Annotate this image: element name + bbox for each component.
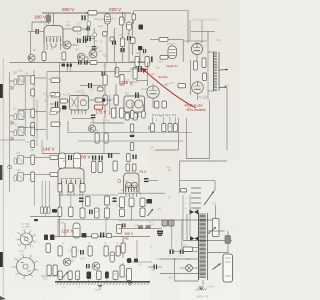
wire <box>93 85 104 87</box>
wire <box>171 220 173 250</box>
wire <box>35 173 50 175</box>
wire <box>114 28 116 63</box>
resistor small R37 <box>50 111 57 114</box>
capacitor C5b <box>82 36 85 41</box>
resistor R90 <box>41 207 44 214</box>
capacitor C81 <box>138 225 143 228</box>
wire <box>147 62 149 86</box>
electrolytic C102 <box>110 252 114 262</box>
wire <box>180 160 227 162</box>
resistor R21b <box>31 89 35 96</box>
switch contact 1 <box>191 187 201 189</box>
flyback T2 core <box>198 213 200 280</box>
wire <box>85 35 94 37</box>
capacitor C96 <box>134 259 138 263</box>
wire <box>0 139 25 141</box>
resistor R67 <box>125 113 129 120</box>
resistor R142 <box>53 265 57 276</box>
capacitor C72 <box>113 198 117 200</box>
wire <box>30 216 60 218</box>
resistor R34 <box>50 155 58 159</box>
resistor R64 <box>178 84 186 88</box>
IF can mark <box>19 158 23 163</box>
resistor R32 <box>51 93 60 98</box>
resistor R34 <box>51 122 60 127</box>
resistor R35 <box>50 172 58 176</box>
resistor R41c <box>115 68 119 78</box>
wire <box>79 185 81 196</box>
capacitor C90 <box>213 219 220 237</box>
diode D1 <box>11 86 14 90</box>
wire <box>188 247 199 249</box>
wire <box>136 240 138 258</box>
paper blotch 4 <box>175 210 245 290</box>
wire <box>73 185 75 196</box>
wire <box>24 156 31 158</box>
wire <box>168 39 183 41</box>
V9 pins <box>125 112 127 118</box>
wire <box>131 207 133 221</box>
wire <box>36 100 38 146</box>
resistor R71 <box>142 111 146 118</box>
svg-text:R41: R41 <box>98 87 103 89</box>
wire <box>132 13 134 55</box>
wire <box>109 95 111 114</box>
capacitor C92 <box>170 250 171 255</box>
tube socket S1 <box>20 233 32 245</box>
resistor R76 <box>132 164 136 171</box>
resistor R64b <box>160 56 168 60</box>
wire <box>130 61 153 63</box>
capacitor C101 <box>86 264 87 268</box>
wire <box>133 20 135 24</box>
wire <box>48 181 50 207</box>
IF can mark <box>19 129 23 134</box>
capacitor C9 <box>120 48 121 52</box>
resistor R11 <box>103 32 107 37</box>
switch contact 3 <box>191 197 201 199</box>
wire <box>152 98 154 108</box>
wire <box>174 251 199 253</box>
resistor R68 <box>133 113 137 120</box>
wire <box>207 31 209 40</box>
capacitor tip b <box>70 64 72 67</box>
resistor R17c <box>194 61 198 70</box>
paper background <box>0 0 240 300</box>
svg-text:R51: R51 <box>92 160 97 162</box>
resistor R48 <box>95 133 99 143</box>
capacitor C44 <box>99 156 100 161</box>
wire <box>197 93 199 100</box>
resistor R24 <box>31 155 35 165</box>
svg-text:C87: C87 <box>77 24 82 26</box>
svg-text:C12: C12 <box>75 276 80 278</box>
wire <box>105 218 107 237</box>
svg-text:220 V: 220 V <box>109 7 122 12</box>
left margin mark 1 <box>0 84 3 98</box>
resistor R138 <box>97 271 102 280</box>
resistor small <box>14 175 17 181</box>
svg-text:-75 V: -75 V <box>138 170 147 174</box>
wire <box>43 61 45 63</box>
capacitor C61 <box>133 155 134 160</box>
resistor small <box>14 130 17 136</box>
capacitor C2 <box>36 29 37 34</box>
wire <box>72 117 93 119</box>
resistor R22 <box>31 109 35 118</box>
wire <box>122 253 124 258</box>
transistor Q5 <box>63 258 71 266</box>
resistor R51 <box>92 162 96 173</box>
capacitor C93 <box>180 250 181 255</box>
svg-text:via Rxx: via Rxx <box>158 75 168 79</box>
wire ground bus <box>55 281 150 283</box>
svg-text:PL81: PL81 <box>142 88 148 91</box>
ground g2 <box>98 285 103 287</box>
resistor R63b <box>159 38 168 42</box>
switch contact 2 <box>191 192 201 194</box>
wire <box>59 192 61 207</box>
switch arm S11 <box>204 191 214 205</box>
svg-text:C12: C12 <box>25 142 30 144</box>
wire <box>103 118 105 154</box>
wire <box>35 129 46 131</box>
resistor R60 <box>135 57 139 67</box>
capacitor C8 <box>112 41 113 45</box>
wire <box>207 40 209 100</box>
paper blotch 3 <box>45 165 155 235</box>
resistor R117 <box>181 189 187 193</box>
resistor R113 <box>140 208 145 217</box>
wire <box>41 181 43 207</box>
paper mottling <box>0 0 240 300</box>
junction <box>106 13 108 15</box>
wire <box>40 31 45 33</box>
svg-text:C14: C14 <box>16 152 21 155</box>
resistor R141 <box>47 265 51 276</box>
fuse resistor on rail <box>88 11 97 15</box>
wire <box>31 22 33 32</box>
paper blotch 2 <box>110 15 210 65</box>
electrolytic capacitor C1 <box>46 15 51 23</box>
switch arm S12 <box>208 227 216 234</box>
resistor R105b <box>69 207 74 217</box>
wire <box>60 43 62 50</box>
wire <box>92 119 94 124</box>
wire <box>180 267 186 269</box>
wire <box>155 149 178 151</box>
left margin mark 2 <box>0 165 2 180</box>
wire <box>45 214 47 217</box>
wire <box>61 185 63 196</box>
transistor Q6 <box>92 262 100 270</box>
svg-text:C87: C87 <box>187 259 192 261</box>
capacitor C45 <box>108 153 109 158</box>
wire <box>181 220 183 250</box>
wire <box>71 44 78 46</box>
ground flyback <box>199 286 204 288</box>
ground hatch fb <box>196 289 197 291</box>
svg-text:1M5: 1M5 <box>69 261 74 263</box>
wire <box>104 105 106 118</box>
wire <box>130 68 138 70</box>
wire <box>115 63 117 75</box>
diode D2 pair <box>190 236 195 241</box>
wire <box>106 33 108 63</box>
paper band right <box>150 150 180 300</box>
resistor R48b <box>112 108 116 118</box>
wire stub <box>115 280 117 282</box>
wire <box>149 180 159 182</box>
capacitor C12 <box>88 83 89 88</box>
svg-text:ECC: ECC <box>125 94 130 96</box>
svg-text:C87: C87 <box>75 49 80 51</box>
wire <box>148 266 154 268</box>
wire <box>85 56 88 58</box>
left margin rule <box>2 58 4 296</box>
ground bus hatch <box>57 283 59 285</box>
wire <box>180 180 215 182</box>
V11 pins <box>125 193 127 197</box>
resistor small <box>14 79 17 85</box>
capacitor C5 <box>87 36 88 41</box>
resistor R75 <box>126 164 130 171</box>
wire <box>158 266 162 268</box>
svg-text:200 V: 200 V <box>62 7 75 12</box>
capacitor C14 <box>62 106 67 110</box>
capacitor C70 <box>52 209 57 213</box>
resistor R46 <box>95 98 102 102</box>
capacitor C16 <box>62 64 66 67</box>
wire <box>85 29 89 31</box>
wire <box>136 80 148 82</box>
resistor R108 <box>107 234 112 238</box>
resistor R66 <box>162 101 166 108</box>
wire <box>82 192 84 208</box>
wire HT line <box>226 88 228 150</box>
wire <box>192 267 198 269</box>
wire <box>35 111 46 113</box>
wire anode V1 <box>53 13 55 26</box>
capacitor dark <box>34 219 38 221</box>
wire stub <box>128 280 130 282</box>
electrolytic C73 <box>73 223 80 238</box>
resistor R80 <box>151 124 155 132</box>
svg-text:C87: C87 <box>94 212 99 214</box>
wire module left <box>46 72 48 140</box>
wire <box>143 68 148 70</box>
svg-text:24RT4 - B: 24RT4 - B <box>196 295 208 299</box>
wire 120V rail <box>55 236 150 238</box>
resistor R103 <box>86 197 91 207</box>
IF can T3 <box>18 127 24 136</box>
V6 pins <box>71 110 73 114</box>
wire <box>182 40 184 63</box>
wire <box>10 80 15 82</box>
wire <box>35 156 50 158</box>
resistor R92 <box>47 207 50 214</box>
resistor R41d <box>98 87 104 91</box>
capacitor C54b <box>139 25 144 30</box>
electrolytic C40 <box>59 153 66 169</box>
resistor R135 <box>58 271 62 280</box>
wire <box>87 57 89 63</box>
wire <box>61 44 63 46</box>
capacitor C7 <box>92 46 97 47</box>
svg-text:175 V: 175 V <box>96 109 107 114</box>
resistor R120 <box>183 247 193 251</box>
svg-text:C12: C12 <box>98 51 103 53</box>
svg-text:R34: R34 <box>115 72 120 74</box>
capacitor C100 <box>80 250 81 255</box>
svg-text:R216: R216 <box>59 223 65 225</box>
resistor R17 <box>202 58 206 68</box>
transistor Q3 <box>77 53 85 61</box>
wire <box>43 43 45 52</box>
svg-text:R216: R216 <box>133 82 139 84</box>
junction <box>137 61 139 63</box>
capacitor C56 <box>148 57 150 62</box>
capacitor C51 <box>127 36 128 40</box>
V11 circle <box>126 182 132 188</box>
wire <box>50 43 52 47</box>
wire <box>183 40 207 42</box>
svg-text:Raak 5n: Raak 5n <box>167 64 179 68</box>
capacitor C4 <box>83 39 84 43</box>
resistor R106 <box>80 208 85 218</box>
wire <box>115 84 117 95</box>
wire h-line A <box>120 132 192 134</box>
wire <box>185 118 187 159</box>
capacitor C71 <box>79 198 84 200</box>
wire <box>122 237 124 244</box>
switch S10 <box>148 209 154 216</box>
svg-text:C12: C12 <box>75 251 80 253</box>
resistor R70 <box>130 111 134 119</box>
IF can T1 <box>18 76 24 85</box>
svg-text:mass: mass <box>95 289 102 292</box>
wire <box>186 158 209 160</box>
svg-text:IC: IC <box>68 22 71 24</box>
svg-text:1M5: 1M5 <box>102 98 107 100</box>
arrow T1 tap <box>220 69 229 72</box>
wire <box>67 185 69 196</box>
resistor R109 <box>117 225 122 234</box>
wire <box>133 11 135 15</box>
wire <box>33 181 35 206</box>
wire <box>87 15 89 37</box>
wire stub <box>88 280 90 282</box>
tube module V6 <box>70 96 89 111</box>
capacitor C54 <box>135 93 136 99</box>
wire <box>64 223 66 237</box>
wire stub <box>98 280 100 282</box>
resistor R23 <box>31 127 35 136</box>
wire <box>67 121 69 133</box>
capacitor C52 <box>138 46 142 50</box>
wire row h2 <box>58 219 118 221</box>
wire <box>104 63 106 76</box>
svg-text:105 V: 105 V <box>125 232 134 236</box>
svg-text:m 4xx: m 4xx <box>208 286 215 289</box>
resistor R17b <box>132 14 136 20</box>
wire 220V feed <box>134 10 188 12</box>
arrow T1 tap2 <box>220 86 228 89</box>
IF can T2 <box>18 111 24 120</box>
wire <box>160 273 199 275</box>
wire <box>186 214 188 241</box>
svg-text:180 V: 180 V <box>34 14 47 19</box>
wire long <box>118 219 215 221</box>
IF can mark <box>19 113 23 118</box>
electrolytic C50 <box>127 22 132 30</box>
tube V8 <box>147 86 159 98</box>
junction <box>174 258 176 260</box>
wire <box>46 43 48 50</box>
svg-text:R76: R76 <box>133 118 138 120</box>
resistor R110b <box>120 209 125 217</box>
wire <box>177 118 179 150</box>
wire <box>10 115 15 117</box>
svg-text:R33: R33 <box>103 73 108 75</box>
wire stub <box>174 117 176 124</box>
wire <box>68 100 70 102</box>
capacitor C103 <box>87 272 92 280</box>
wire row h <box>58 194 118 196</box>
resistor R112 <box>140 198 145 207</box>
svg-text:R41: R41 <box>225 86 230 88</box>
wire <box>150 39 159 41</box>
capacitor C11 <box>84 60 85 64</box>
svg-text:1M5: 1M5 <box>130 207 135 209</box>
wire <box>187 11 189 44</box>
resistor R16 <box>110 37 114 41</box>
capacitor C80b <box>147 199 153 204</box>
capacitor C17 <box>102 72 103 77</box>
resistor R44 <box>114 95 118 105</box>
resistor R83 <box>173 124 177 132</box>
wire <box>50 103 55 105</box>
wire stub <box>163 117 165 124</box>
svg-text:C15: C15 <box>16 169 21 172</box>
wire <box>106 12 108 15</box>
svg-text:IC: IC <box>117 205 120 207</box>
diode D1 pair <box>190 210 195 215</box>
resistor R14 <box>130 38 135 44</box>
wire stub <box>106 280 108 282</box>
resistor R49b <box>120 108 124 118</box>
wire <box>160 258 199 260</box>
resistor R45 <box>60 99 68 103</box>
wire <box>32 21 49 23</box>
wire stub <box>77 280 79 282</box>
resistor R81 <box>162 124 166 132</box>
resistor R133 <box>104 246 108 256</box>
wire <box>81 28 88 30</box>
svg-text:0V: 0V <box>90 123 93 125</box>
capacitor C13 <box>55 102 56 108</box>
capacitor C80 <box>144 178 149 179</box>
svg-text:R1a: R1a <box>66 25 71 27</box>
resistor R62 <box>133 68 137 80</box>
diode D3 <box>11 137 14 141</box>
resistor R106c <box>105 208 110 218</box>
IF can T5 <box>18 173 24 182</box>
wire <box>208 252 228 254</box>
svg-text:IC: IC <box>153 84 156 86</box>
resistor R15 <box>62 52 66 60</box>
resistor R11b <box>93 33 97 37</box>
